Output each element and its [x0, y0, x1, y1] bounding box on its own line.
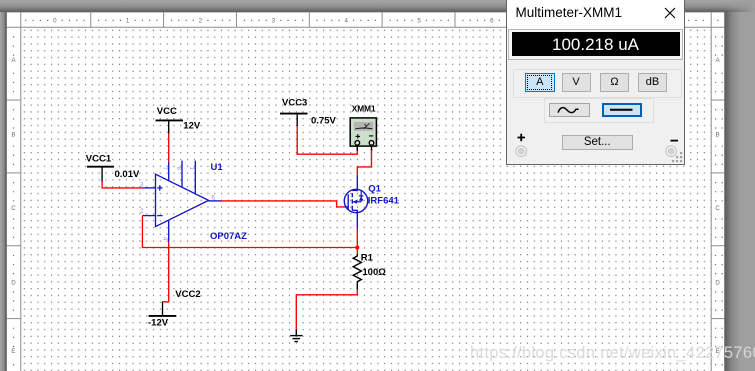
XMM1 icon right pin — [371, 145, 373, 151]
shadow band right of sheet — [725, 12, 741, 371]
top ruler section boundaries — [90, 13, 92, 28]
button DC (line, selected) — [602, 103, 643, 117]
transistor Q1 IRF641 circle — [344, 189, 367, 212]
XMM1 icon left terminal — [355, 141, 360, 146]
svg-text:XMM1: XMM1 — [352, 103, 376, 113]
shadow band left of sheet — [0, 12, 7, 371]
multimeter XMM1 dialog window — [506, 0, 686, 165]
measurement value text — [509, 30, 682, 59]
svg-text:12V: 12V — [183, 121, 201, 132]
button A (selected) — [525, 73, 555, 92]
XMM1 icon plus sign — [356, 134, 361, 138]
svg-text:VCC: VCC — [157, 106, 177, 117]
Set button — [562, 135, 634, 151]
svg-text:D: D — [11, 279, 16, 286]
wire op-amp output to Q1 gate — [221, 201, 345, 207]
Q1 channel segments — [351, 193, 353, 210]
dialog close button — [664, 7, 676, 19]
plus terminal label — [517, 133, 526, 142]
wire VCC to op-amp V+ pin — [168, 134, 170, 162]
svg-text:B: B — [11, 131, 15, 138]
minus terminal jack — [665, 145, 678, 158]
svg-text:D: D — [715, 279, 720, 286]
op-amp top pin 1 — [194, 161, 196, 195]
right ruler minor ticks — [715, 36, 723, 365]
button AC (sine) — [549, 103, 591, 117]
resistor R1 body — [353, 254, 361, 290]
op-amp U1 OP07AZ triangle body — [156, 174, 209, 226]
svg-text:3: 3 — [272, 18, 276, 25]
op-amp pin 3 stub (+ input) — [142, 187, 155, 189]
op-amp top pin 8 — [181, 161, 183, 188]
op-amp top pin 7 — [168, 162, 170, 181]
svg-text:6: 6 — [490, 18, 494, 25]
left/right ruler section boundaries — [7, 99, 21, 101]
op-amp pin 6 output stub — [209, 200, 221, 202]
junction node at R1 top — [355, 246, 359, 250]
multimeter XMM1 icon box — [350, 118, 376, 146]
svg-text:IRF641: IRF641 — [368, 195, 400, 206]
svg-text:B: B — [716, 131, 720, 138]
left ruler minor ticks — [13, 36, 14, 365]
op-amp minus sign — [157, 215, 162, 217]
minus terminal label — [670, 139, 679, 143]
dialog title bar — [507, 0, 685, 28]
svg-text:5: 5 — [417, 18, 421, 25]
wire multimeter - terminal to Q1 drain — [357, 151, 371, 175]
XMM1 meter needle — [355, 123, 372, 129]
power VCC1 symbol — [87, 167, 114, 182]
button Ohm — [600, 73, 629, 92]
button dB — [638, 73, 667, 92]
top ruler minor ticks — [25, 20, 718, 21]
Q1 body diode — [359, 191, 364, 202]
top ruler band line — [7, 26, 725, 28]
svg-text:0: 0 — [53, 18, 57, 25]
XMM1 icon right terminal — [369, 141, 374, 146]
power VCC3 symbol — [280, 114, 308, 127]
wire op-amp V- pin to VCC2 — [163, 242, 169, 303]
svg-text:R1: R1 — [361, 252, 374, 263]
mode buttons group frame — [513, 69, 682, 98]
Q1 gate bar — [347, 194, 349, 209]
svg-text:OP07AZ: OP07AZ — [210, 231, 247, 242]
svg-text:VCC2: VCC2 — [175, 289, 200, 300]
svg-text:2: 2 — [199, 18, 203, 25]
svg-text:https://blog.csdn.net/weixin_4: https://blog.csdn.net/weixin_42275760 — [470, 344, 755, 362]
Q1 drain connection — [352, 175, 357, 191]
svg-text:0.75V: 0.75V — [311, 116, 336, 127]
wire VCC1 to op-amp pin 3 — [102, 182, 142, 188]
dialog display well background — [507, 28, 685, 60]
wire junction to R1 — [356, 248, 358, 255]
XMM1 icon meter display — [354, 122, 373, 131]
Q1 source connection — [352, 210, 357, 229]
power VCC symbol — [156, 120, 184, 133]
ground symbol — [290, 330, 302, 342]
svg-text:U1: U1 — [211, 162, 224, 173]
Q1 gate stub — [345, 206, 349, 208]
svg-text:Q1: Q1 — [368, 184, 381, 195]
Q1 substrate arrow — [352, 200, 361, 204]
XMM1 icon minus sign — [369, 135, 373, 137]
XMM1 icon left pin — [356, 145, 358, 151]
sheet edge lines — [7, 11, 725, 13]
resize grip — [671, 151, 683, 163]
svg-text:VCC3: VCC3 — [282, 98, 307, 109]
svg-text:E: E — [11, 348, 15, 355]
op-amp pin 2 stub (- input) — [142, 215, 155, 217]
measurement display frame — [508, 29, 683, 60]
wire VCC3 to multimeter + terminal — [297, 126, 357, 154]
shadow band above sheet — [0, 0, 755, 12]
op-amp plus sign — [157, 185, 162, 190]
waveform buttons group frame — [544, 98, 654, 123]
svg-text:0.01V: 0.01V — [115, 169, 140, 180]
svg-text:C: C — [715, 205, 720, 212]
svg-text:C: C — [11, 205, 16, 212]
wire Q1 source to junction — [356, 229, 358, 248]
wire R1 bottom to ground — [296, 290, 357, 330]
dialog title text — [516, 5, 623, 20]
svg-text:VCC1: VCC1 — [86, 154, 112, 165]
svg-text:1: 1 — [126, 18, 130, 25]
plus terminal jack — [515, 145, 528, 158]
button V — [562, 73, 591, 92]
svg-text:-12V: -12V — [148, 318, 169, 329]
wire feedback pin 2 to R1 top junction — [142, 216, 357, 248]
svg-text:4: 4 — [344, 18, 348, 25]
measurement display black screen — [512, 32, 680, 56]
svg-text:100Ω: 100Ω — [362, 267, 386, 278]
power VCC2 symbol — [149, 302, 177, 316]
op-amp bottom pin 4 — [168, 220, 170, 242]
